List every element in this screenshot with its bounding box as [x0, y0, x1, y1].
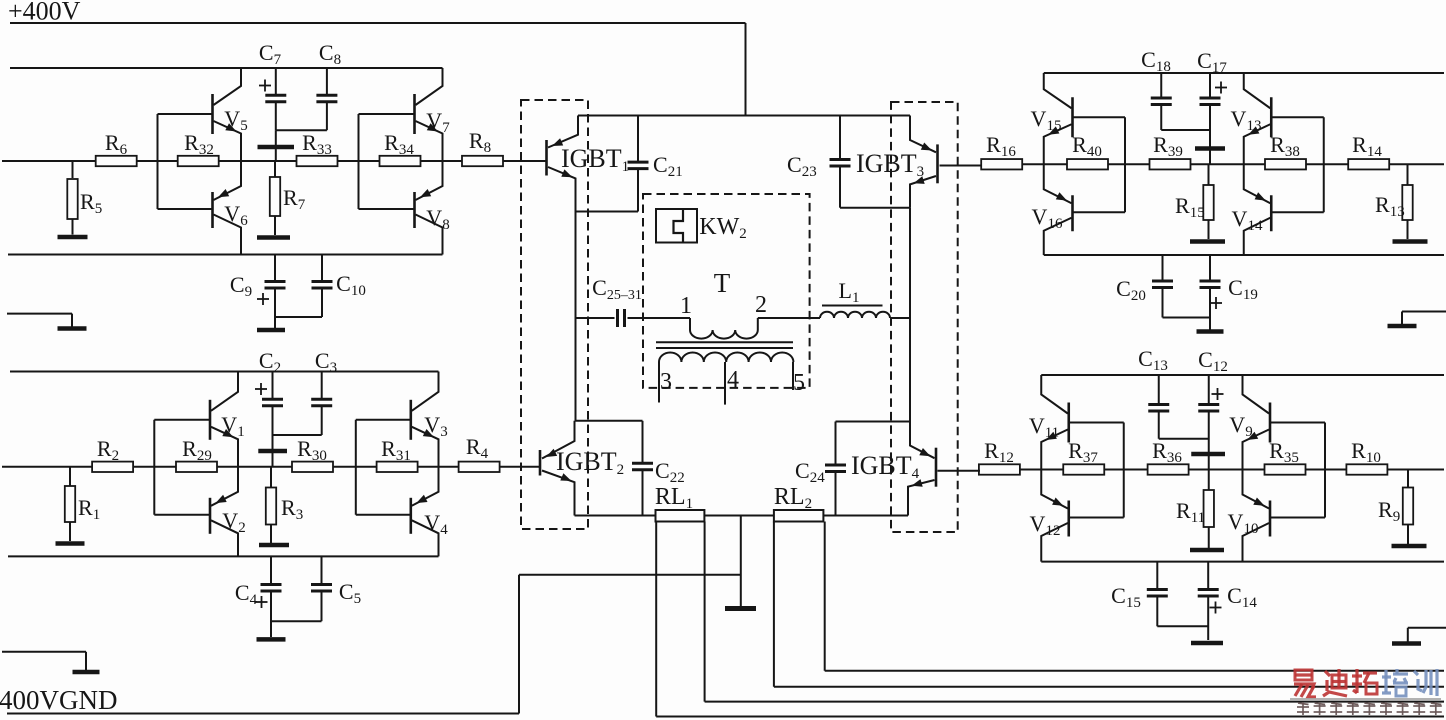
resistor R38: [1265, 132, 1306, 169]
transistor V12: [1030, 470, 1069, 562]
node pin 2: [755, 292, 767, 318]
transistor V1: [210, 372, 245, 467]
capacitor C14: [1198, 562, 1258, 640]
wire R13 junction drop: [1407, 164, 1409, 185]
svg-text:400VGND: 400VGND: [0, 685, 118, 715]
capacitor C20: [1116, 255, 1210, 318]
svg-text:IGBT2: IGBT2: [556, 447, 624, 478]
resistor R37: [1063, 438, 1104, 475]
wire +400V rail: [10, 23, 746, 116]
resistor RL2: [774, 484, 824, 522]
transistor V4: [411, 467, 448, 557]
wire R9 junction drop: [1407, 470, 1409, 488]
svg-text:4: 4: [727, 367, 739, 393]
svg-text:1: 1: [680, 293, 692, 319]
ground lower-left stub: [73, 670, 100, 675]
node C7 terminal bar: [258, 130, 295, 161]
node C2 terminal bar: [258, 449, 287, 454]
wire base network V13/V14: [1271, 117, 1324, 212]
ground C19: [1197, 329, 1224, 334]
wire lower-right lower rail: [1041, 561, 1444, 563]
capacitor C13: [1138, 346, 1209, 439]
resistor R3: [266, 467, 303, 543]
resistor R16: [981, 132, 1022, 169]
ground R13: [1393, 239, 1428, 244]
capacitor C19: [1200, 255, 1258, 330]
wire RL1 right output: [705, 522, 1444, 702]
resistor R36: [1148, 438, 1189, 475]
ground R7: [257, 235, 290, 240]
wire upper-right stub: [1402, 312, 1446, 325]
wire RL2 left output: [774, 522, 1444, 687]
resistor R12: [979, 438, 1020, 475]
svg-text:IGBT3: IGBT3: [856, 149, 924, 180]
wire IGBT4 collector top: [836, 422, 911, 466]
wire lower-left supply rail: [10, 371, 439, 373]
wire pin 5: [793, 362, 805, 396]
resistor R14: [1348, 132, 1389, 169]
watermark logo: [1290, 669, 1441, 699]
resistor R15: [1175, 164, 1214, 239]
resistor R10: [1346, 438, 1387, 475]
ground R9: [1392, 544, 1427, 549]
wire lower-left main row: [2, 466, 499, 468]
watermark caption: [1297, 702, 1442, 715]
svg-text:IGBT1: IGBT1: [561, 144, 629, 175]
ground upper-left stub: [58, 326, 87, 331]
ground lower-right stub: [1392, 641, 1421, 646]
svg-text:5: 5: [793, 370, 805, 396]
resistor R13: [1375, 185, 1413, 239]
resistor R6: [96, 130, 137, 166]
wire IGBT2 emitter row: [575, 515, 656, 517]
capacitor C4: [235, 556, 282, 637]
wire left bridge midpoint: [575, 212, 577, 421]
resistor R11: [1176, 470, 1214, 549]
transistor V10: [1228, 470, 1270, 562]
transistor V15: [1031, 73, 1073, 164]
transistor V16: [1032, 164, 1073, 255]
resistor R31: [377, 436, 418, 472]
resistor R2: [92, 436, 133, 472]
capacitor C25-31: [592, 275, 642, 327]
capacitor C10: [275, 255, 366, 318]
resistor R5: [67, 179, 102, 235]
capacitor C18: [1141, 47, 1210, 130]
wire lower-right stub: [1408, 628, 1446, 642]
resistor R9: [1378, 488, 1413, 545]
ground bridge emitter: [725, 516, 756, 609]
ground R5: [58, 235, 88, 240]
wire upper-left main row: [2, 160, 503, 162]
resistor R29: [176, 436, 217, 472]
capacitor C3: [273, 348, 338, 435]
wire base network V1/V2: [154, 420, 210, 515]
transistor V14: [1232, 164, 1272, 255]
ground upper-right stub: [1388, 324, 1417, 329]
wire IGBT2 collector top: [575, 421, 643, 464]
wire 400VGND bottom line: [7, 575, 741, 714]
node C12 terminal bar: [1191, 452, 1225, 457]
wire lower-left stub: [2, 652, 86, 670]
resistor R39: [1150, 132, 1191, 169]
ground C9: [257, 328, 285, 333]
inductor L1: [820, 278, 890, 318]
transistor V8: [415, 161, 450, 255]
svg-text:2: 2: [755, 292, 767, 318]
resistor R33: [297, 130, 338, 166]
wire pin 3: [659, 362, 672, 403]
wire L1 to right midpoint: [890, 317, 910, 319]
wire base network V5/V6: [158, 114, 213, 209]
wire upper-left lower rail: [8, 254, 443, 256]
wire IGBT4 emitter row: [823, 515, 908, 517]
capacitor C12: [1198, 347, 1228, 470]
wire lower-left lower rail: [8, 555, 439, 557]
wire lower-right supply rail: [1041, 374, 1444, 376]
capacitor C17: [1197, 48, 1227, 164]
transistor V13: [1231, 73, 1272, 164]
svg-text:IGBT4: IGBT4: [851, 451, 920, 482]
node C17 terminal bar: [1195, 146, 1225, 151]
resistor RL1: [655, 484, 704, 522]
wire IGBT1 emitter to C25-31: [576, 317, 615, 319]
capacitor C2: [255, 348, 283, 467]
wire R5 junction drop: [72, 161, 74, 178]
wire right bridge midpoint: [909, 208, 911, 422]
node 400VGND label: [0, 685, 118, 715]
capacitor C21: [576, 116, 683, 212]
dashed box transformer unit: [643, 194, 810, 388]
resistor R34: [380, 130, 421, 166]
ground C4: [257, 637, 286, 642]
transformer T secondary: [659, 353, 793, 363]
wire base network V11/V12: [1069, 423, 1124, 518]
resistor R7: [270, 161, 306, 235]
ground R3: [259, 543, 289, 548]
capacitor C9: [230, 255, 286, 329]
wire upper-right supply rail: [1044, 72, 1444, 74]
wire base network V3/V4: [356, 420, 411, 515]
resistor R32: [178, 130, 219, 166]
capacitor C5: [271, 556, 361, 621]
ground R15: [1190, 239, 1225, 244]
transistor V5: [213, 68, 248, 161]
transistor V3: [411, 372, 448, 467]
relay KW2: [656, 209, 747, 243]
capacitor C22: [632, 458, 685, 516]
ground C14: [1191, 641, 1223, 646]
resistor R8: [462, 128, 503, 166]
capacitor C24: [795, 458, 846, 516]
wire C25-31 to transformer pin 1: [628, 317, 691, 319]
capacitor C7: [259, 40, 286, 130]
dashed box IGBT3/IGBT4: [891, 102, 958, 532]
capacitor C8: [276, 40, 341, 130]
wire upper-left supply rail: [10, 67, 443, 69]
resistor R4: [459, 434, 500, 472]
wire bridge top rail (IGBT1/IGBT3 collectors): [578, 115, 910, 117]
wire lower-right main row: [980, 469, 1444, 471]
resistor R1: [65, 486, 100, 541]
resistor R40: [1067, 132, 1108, 169]
transistor V2: [210, 467, 246, 557]
transistor V11: [1029, 375, 1069, 470]
dashed box IGBT1/IGBT2: [521, 100, 588, 529]
IGBT U2 (IGBT2): [499, 421, 624, 516]
wire upper-left stub: [7, 314, 72, 327]
capacitor C23: [787, 116, 851, 208]
wire pin 2 to L1: [758, 317, 820, 319]
svg-text:T: T: [714, 268, 731, 298]
resistor R35: [1265, 438, 1306, 475]
wire base network V9/V10: [1270, 423, 1325, 518]
wire RL1 left output: [656, 522, 1444, 717]
wire upper-right main row: [981, 163, 1444, 165]
capacitor C15: [1111, 562, 1208, 627]
wire base network V7/V8: [359, 114, 415, 209]
IGBT U1 (IGBT1): [503, 116, 629, 212]
IGBT U3 (IGBT3): [856, 116, 981, 208]
wire IGBT3 emitter row: [840, 207, 910, 209]
transistor V6: [213, 161, 249, 255]
wire base network V15/V16: [1073, 117, 1126, 212]
node pin 1: [680, 293, 692, 319]
node +400V label: [8, 0, 81, 26]
wire RL2 right output: [825, 522, 1444, 671]
transformer T primary: [690, 268, 758, 339]
transistor V7: [415, 68, 451, 161]
ground R1: [56, 541, 85, 546]
svg-text:+400V: +400V: [8, 0, 81, 26]
svg-text:3: 3: [660, 369, 672, 395]
wire R1 junction drop: [69, 467, 71, 486]
wire RL1 to ground junction: [704, 515, 774, 517]
wire upper-right lower rail: [1044, 254, 1444, 256]
transistor V9: [1229, 375, 1270, 470]
transformer T core: [656, 342, 793, 348]
ground R11: [1190, 548, 1224, 553]
resistor R30: [292, 436, 333, 472]
IGBT U4 (IGBT4): [851, 422, 980, 516]
wire pin 4: [725, 362, 739, 405]
